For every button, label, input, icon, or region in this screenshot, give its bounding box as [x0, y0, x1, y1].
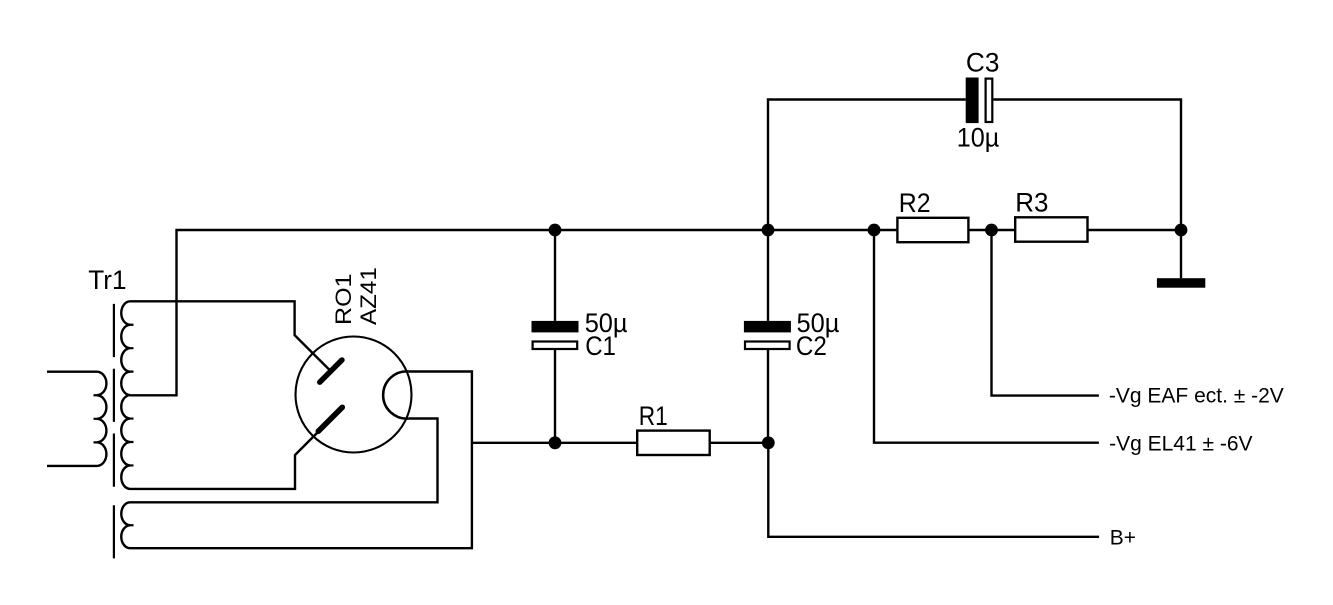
svg-text:RO1: RO1	[331, 274, 356, 326]
svg-text:C3: C3	[966, 48, 1000, 78]
svg-text:-Vg EL41 ± -6V: -Vg EL41 ± -6V	[1109, 433, 1252, 456]
svg-text:B+: B+	[1110, 527, 1136, 550]
svg-text:R2: R2	[899, 188, 931, 218]
svg-text:R1: R1	[639, 401, 668, 431]
svg-text:10µ: 10µ	[957, 122, 1000, 152]
svg-text:C2: C2	[796, 331, 827, 361]
svg-text:C1: C1	[585, 331, 616, 361]
svg-text:Tr1: Tr1	[88, 265, 126, 295]
svg-text:AZ41: AZ41	[356, 267, 381, 325]
svg-text:-Vg EAF ect. ± -2V: -Vg EAF ect. ± -2V	[1109, 384, 1284, 407]
svg-text:R3: R3	[1015, 188, 1048, 218]
